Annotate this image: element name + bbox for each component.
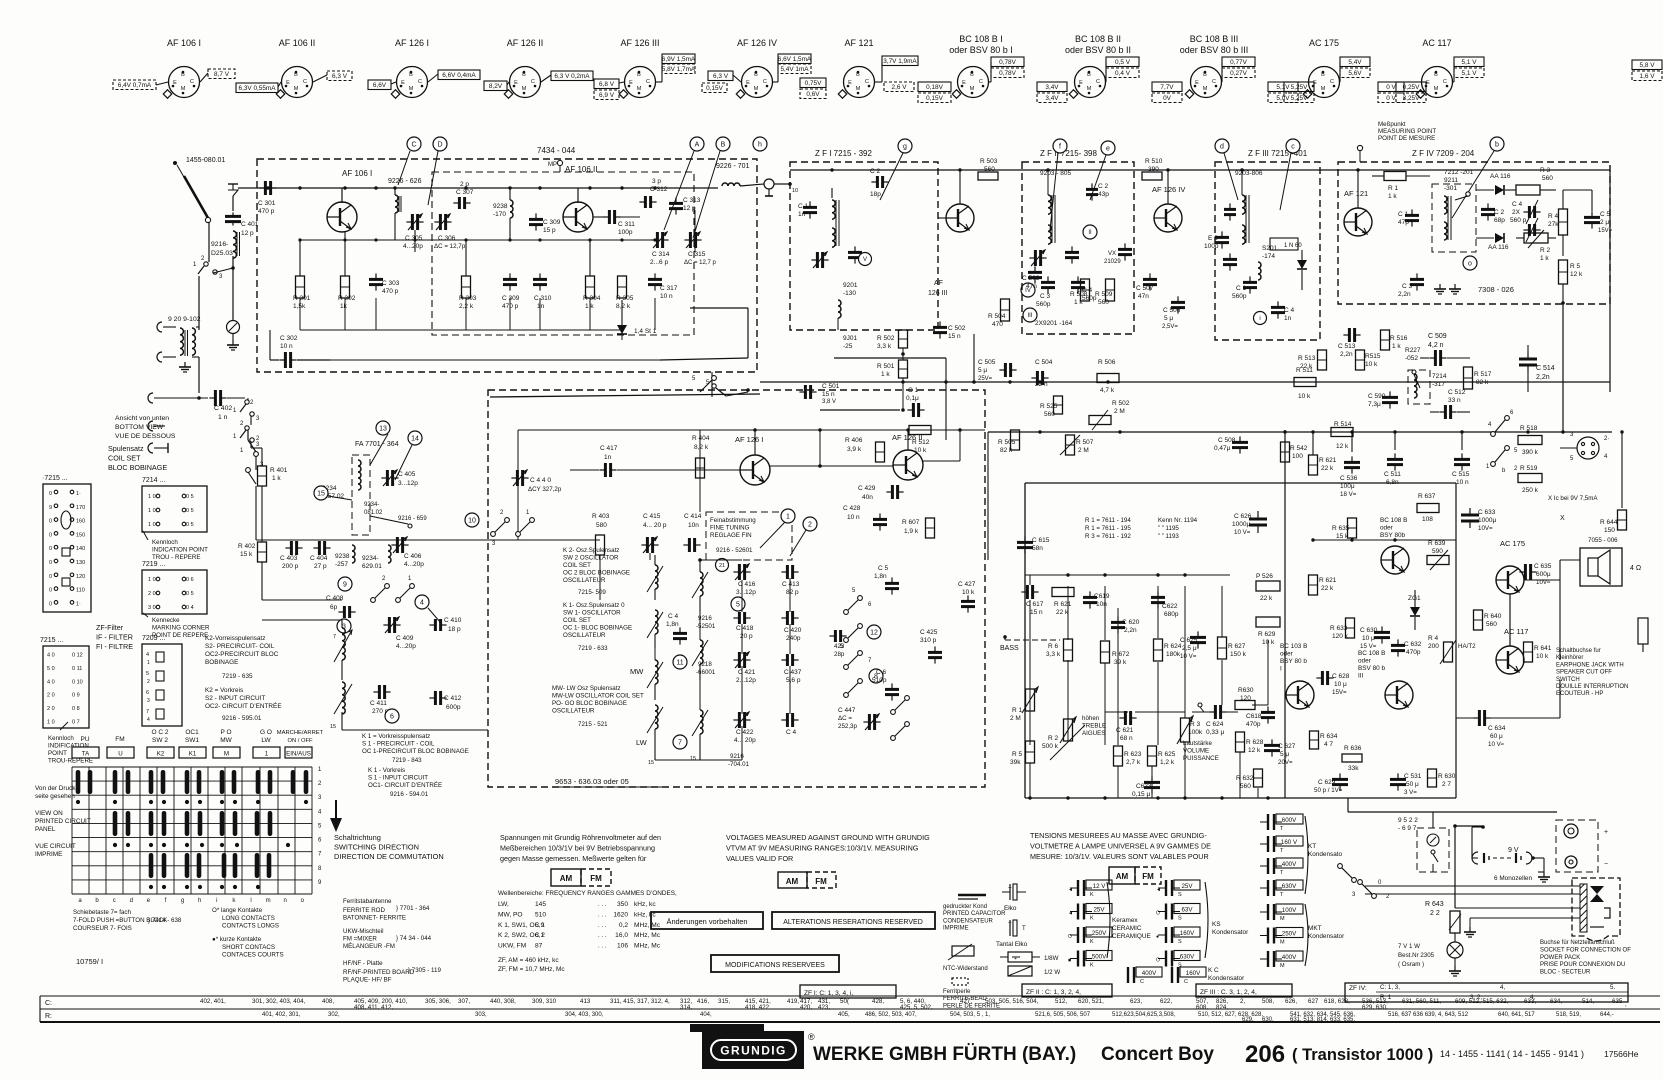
svg-text:d: d: [130, 898, 133, 904]
svg-text:R 504: R 504: [988, 313, 1006, 320]
trimmer C305 4..20p: [403, 214, 424, 252]
svg-text:( 14 - 1455 - 9141 ): ( 14 - 1455 - 9141 ): [1507, 1049, 1584, 1059]
svg-text:AF 126 IV: AF 126 IV: [737, 38, 777, 48]
svg-text:9203-806: 9203-806: [1235, 170, 1263, 177]
svg-text:C 506: C 506: [1163, 307, 1181, 314]
svg-text:C 511: C 511: [1384, 471, 1401, 478]
tape jack circle: [1560, 432, 1609, 462]
transistor case bottom view AF 106 II: [276, 38, 315, 98]
tone control rail: [1025, 574, 1230, 576]
svg-text:15: 15: [648, 760, 654, 766]
svg-text:307,: 307,: [458, 998, 470, 1005]
svg-text:310 p: 310 p: [920, 637, 937, 644]
svg-text:4,: 4,: [1500, 984, 1505, 991]
svg-text:2 2: 2 2: [1430, 910, 1440, 917]
svg-text:PLAQUE- HF/ BF: PLAQUE- HF/ BF: [343, 977, 392, 984]
svg-text:0: 0: [49, 532, 52, 538]
svg-text:R 513: R 513: [1298, 355, 1316, 362]
svg-text:4 0: 4 0: [47, 679, 55, 685]
svg-text:1 k: 1 k: [1074, 299, 1083, 306]
svg-text:C 405: C 405: [398, 471, 416, 478]
svg-text:623,: 623,: [1130, 998, 1142, 1005]
svg-text:250 k: 250 k: [1522, 487, 1539, 494]
capacitor C303 470p: [369, 273, 400, 295]
svg-text:4: 4: [146, 652, 149, 658]
capacitor C1 47p ZF IV: [1398, 209, 1419, 226]
svg-text:AA 116: AA 116: [1490, 173, 1511, 180]
circled 8 marker: [869, 669, 883, 683]
svg-text:R 505: R 505: [998, 439, 1016, 446]
svg-text:100μ: 100μ: [1340, 483, 1355, 490]
svg-text:4...20p: 4...20p: [403, 243, 423, 250]
trimmer C440 327,2p: [511, 470, 561, 493]
svg-text:Spulensatz: Spulensatz: [108, 444, 144, 453]
svg-text:Schaltrichtung: Schaltrichtung: [334, 833, 381, 842]
svg-text:C 416: C 416: [738, 581, 756, 588]
svg-text:1 k: 1 k: [881, 371, 890, 378]
svg-text:M: M: [1203, 86, 1208, 92]
capacitor C513 2,2n: [1338, 328, 1361, 358]
top supply rail FM box: [238, 187, 718, 189]
capacitor C307 2p: [453, 181, 473, 209]
svg-text:8,7 V: 8,7 V: [214, 71, 230, 78]
svg-text:SW 2: SW 2: [152, 737, 168, 744]
svg-text:SW1: SW1: [185, 737, 199, 744]
resistor R621b 22k: [1309, 455, 1337, 475]
resistor R627 150k: [1218, 637, 1247, 659]
svg-text:2 0: 2 0: [47, 706, 55, 712]
svg-text:4 0: 4 0: [47, 653, 55, 659]
output transistor AC175: [1496, 539, 1525, 594]
svg-text:0 5: 0 5: [186, 591, 194, 597]
svg-text:514,: 514,: [1582, 998, 1594, 1005]
svg-text:PU: PU: [80, 736, 89, 743]
svg-text:ON / OFF: ON / OFF: [287, 738, 313, 744]
measuring circle b: [1490, 137, 1504, 151]
svg-text:R 516: R 516: [1390, 335, 1408, 342]
small black marker under index: [690, 1024, 764, 1032]
svg-text:680p: 680p: [1164, 611, 1179, 618]
capacitor C3 2,2n ZF IV: [1398, 273, 1461, 298]
long rail y382: [760, 381, 1610, 383]
svg-text:R630: R630: [1238, 687, 1254, 694]
svg-text:C 1: C 1: [798, 203, 809, 210]
modifications reservees box: [711, 955, 839, 972]
svg-text:C: C: [190, 79, 194, 85]
IF filter table 7215: [40, 637, 89, 728]
svg-text:47n: 47n: [1026, 283, 1037, 290]
transistor AF 126 IV IF amp: [1152, 170, 1185, 232]
svg-text:9J01: 9J01: [843, 335, 857, 342]
svg-text:S 1 - INPUT CIRCUIT: S 1 - INPUT CIRCUIT: [368, 775, 428, 782]
oscillator K2 coil: [647, 555, 663, 600]
svg-text:9203 - 805: 9203 - 805: [1040, 170, 1071, 177]
svg-text:RF/NF-PRINTED BOARD: RF/NF-PRINTED BOARD: [343, 969, 415, 976]
svg-text:Z F I 7215 - 392: Z F I 7215 - 392: [815, 149, 872, 158]
junction wires mixer area: [770, 430, 960, 468]
svg-text:C 630: C 630: [1360, 627, 1378, 634]
svg-text:LW: LW: [261, 737, 271, 744]
svg-text:160V: 160V: [1180, 930, 1195, 937]
svg-text:b: b: [1495, 142, 1499, 149]
svg-text:10: 10: [792, 188, 798, 194]
svg-text:25V=: 25V=: [978, 376, 993, 382]
svg-text:1000μ: 1000μ: [1232, 521, 1250, 528]
svg-text:0: 0: [49, 588, 52, 594]
HF NF board legend: [343, 960, 441, 984]
svg-text:824,: 824,: [1216, 1004, 1228, 1011]
long rail y397 AM top: [490, 394, 760, 397]
svg-text:7219 - 843: 7219 - 843: [392, 757, 422, 764]
svg-text:C: C: [1212, 79, 1216, 85]
svg-text:9238: 9238: [493, 203, 508, 210]
svg-text:2X: 2X: [1512, 209, 1521, 216]
svg-text:5,25V: 5,25V: [1291, 84, 1308, 91]
capacitor C4 1,8n osc: [666, 613, 687, 645]
svg-text:0,2: 0,2: [619, 922, 628, 929]
svg-text:C: C: [303, 79, 307, 85]
switch contact 5 below FM box: [706, 380, 750, 396]
measuring point circles C and D: [398, 137, 447, 205]
svg-text:oder BSV 80 b III: oder BSV 80 b III: [1180, 45, 1249, 55]
capacitor C410 18p: [429, 617, 461, 633]
svg-text:5,25V: 5,25V: [1291, 95, 1308, 102]
svg-text:AM: AM: [1116, 872, 1129, 881]
svg-text:4 7: 4 7: [1324, 741, 1333, 748]
svg-text:18 V=: 18 V=: [1340, 491, 1357, 498]
svg-text:2,2n: 2,2n: [1340, 351, 1353, 358]
svg-text:−: −: [1604, 861, 1608, 868]
svg-text:1: 1: [265, 751, 269, 758]
svg-text:MW, PO: MW, PO: [498, 911, 523, 918]
svg-text:g: g: [903, 144, 907, 151]
svg-text:Feinabstimmung: Feinabstimmung: [710, 517, 756, 524]
svg-text:ΔCΥ 327,2p: ΔCΥ 327,2p: [528, 486, 562, 493]
resistor R506 4,7k: [1097, 359, 1119, 394]
svg-text:5,4V 1mA: 5,4V 1mA: [780, 66, 809, 73]
measuring point circle g: [898, 139, 912, 153]
svg-text:gedruckter Kond: gedruckter Kond: [943, 904, 987, 910]
svg-text:R 633: R 633: [1330, 625, 1348, 632]
svg-text:C618: C618: [1246, 713, 1262, 720]
svg-text:0: 0: [49, 574, 52, 580]
text block K2 oscillator: [563, 547, 630, 596]
capacitor C505 5u 25V: [978, 359, 1017, 382]
svg-text:R 5: R 5: [1012, 751, 1023, 758]
svg-text:K 1 = Vorkreisspulensatz: K 1 = Vorkreisspulensatz: [362, 733, 430, 740]
NTC resistor legend: [943, 944, 988, 972]
svg-text:,: ,: [1625, 1001, 1627, 1008]
svg-text:O* lange Kontakte: O* lange Kontakte: [212, 907, 263, 914]
transistor AF 106 I (FM RF amp): [327, 169, 372, 232]
transistor case bottom view AF 126 II: [504, 38, 543, 98]
capacitor C4 1n ZF III: [1271, 301, 1295, 322]
svg-text:304, 403, 300,: 304, 403, 300,: [565, 1012, 604, 1018]
svg-text:C 427: C 427: [958, 581, 976, 588]
svg-text:V: V: [863, 257, 867, 263]
svg-text:25V: 25V: [1093, 907, 1105, 914]
svg-text:47n: 47n: [1138, 293, 1149, 300]
svg-text:l: l: [250, 898, 251, 904]
svg-text:9216-: 9216-: [211, 241, 228, 248]
capacitor C5 1,8n: [874, 565, 899, 595]
svg-text:145: 145: [535, 901, 546, 908]
svg-text:A: A: [695, 142, 700, 149]
svg-text:MHz, Mc: MHz, Mc: [634, 922, 661, 929]
svg-text:IMPRIME: IMPRIME: [35, 851, 62, 858]
svg-text:2,2n: 2,2n: [1124, 627, 1137, 634]
capacitor C403 200p: [280, 541, 303, 570]
svg-text:C 505: C 505: [978, 359, 996, 366]
svg-text:R 305: R 305: [616, 295, 634, 302]
svg-text:560: 560: [984, 166, 995, 173]
svg-text:Kondensator: Kondensator: [1208, 975, 1245, 982]
svg-text:III: III: [1358, 673, 1364, 680]
capacitor C634 60u: [1473, 710, 1505, 748]
svg-text:400V: 400V: [1282, 954, 1297, 961]
svg-text:7: 7: [678, 740, 682, 747]
svg-text:3 V=: 3 V=: [1404, 789, 1417, 796]
svg-text:C 418: C 418: [736, 625, 754, 632]
svg-text:15 k: 15 k: [240, 551, 253, 558]
svg-text:350: 350: [617, 901, 628, 908]
capacitor C427 10k: [958, 581, 976, 613]
svg-text:418, 422: 418, 422: [745, 1004, 770, 1011]
svg-text:-257: -257: [335, 561, 348, 568]
svg-text:512,623,504,625,3,508,: 512,623,504,625,3,508,: [1112, 1012, 1176, 1018]
svg-text:VX: VX: [1108, 251, 1116, 257]
svg-text:K2-Vorreisspulensatz: K2-Vorreisspulensatz: [205, 635, 265, 642]
resistor R525 560: [1040, 396, 1063, 418]
connector table 7215: [42, 475, 91, 612]
svg-text:C 3: C 3: [1402, 283, 1413, 290]
switch contact S512: [692, 376, 716, 392]
capacitor C627 5u: [1264, 739, 1296, 766]
svg-text:20V=: 20V=: [1278, 759, 1293, 766]
resistor R505 82k: [998, 430, 1020, 454]
svg-text:10: 10: [468, 518, 476, 525]
svg-text:50 μ: 50 μ: [1406, 781, 1419, 788]
svg-text:22 k: 22 k: [1260, 595, 1273, 602]
FM box mid rail: [298, 238, 660, 241]
svg-text:FM: FM: [1142, 872, 1154, 881]
svg-text:2,: 2,: [1240, 998, 1245, 1005]
svg-text:7,7V: 7,7V: [1160, 84, 1174, 91]
svg-text:III: III: [1027, 313, 1032, 319]
svg-text:4... 20 p: 4... 20 p: [643, 522, 667, 529]
svg-text:309, 310: 309, 310: [532, 998, 557, 1005]
svg-text:SOCKET FOR CONNECTION OF: SOCKET FOR CONNECTION OF: [1540, 947, 1631, 953]
svg-text:82 k: 82 k: [1000, 447, 1013, 454]
indication point label 7214: [143, 531, 208, 561]
svg-text:S: S: [1178, 916, 1182, 922]
svg-text:AF 126 IV: AF 126 IV: [1152, 185, 1185, 194]
svg-text:150: 150: [1604, 527, 1615, 534]
svg-text:Z F II 7215- 398: Z F II 7215- 398: [1040, 149, 1097, 158]
resistor R3 560: [1516, 167, 1556, 195]
svg-text:BLOC BOBINAGE: BLOC BOBINAGE: [108, 463, 167, 472]
svg-text:Lautstärke: Lautstärke: [1183, 740, 1212, 747]
svg-text:AC 117: AC 117: [1422, 38, 1451, 48]
capacitor C630 10u: [1360, 626, 1390, 650]
capacitor E3 100p: [1204, 231, 1229, 250]
circled 5 marker: [731, 597, 745, 611]
svg-text:” ” 1195: ” ” 1195: [1158, 525, 1179, 532]
svg-text:KS: KS: [1212, 921, 1221, 928]
capacitor C619 10n: [1083, 591, 1110, 608]
svg-text:REGLAGE FIN: REGLAGE FIN: [710, 532, 752, 539]
svg-text:Keramex: Keramex: [1112, 917, 1138, 924]
svg-text:0 6: 0 6: [186, 577, 194, 583]
capacitor C402 1n: [148, 390, 245, 421]
resistor R4 27k: [1548, 190, 1568, 256]
circled 1 2 markers: [760, 509, 817, 556]
svg-text:” ” 1193: ” ” 1193: [1158, 533, 1179, 540]
svg-text:5,8 V: 5,8 V: [1640, 62, 1656, 69]
svg-text:C: 1, 3,: C: 1, 3,: [1380, 984, 1400, 991]
resistor R5 39k: [1010, 741, 1035, 766]
svg-text:2,5V=: 2,5V=: [1162, 324, 1178, 330]
svg-text:315,: 315,: [718, 998, 730, 1005]
coil 9216-704.01: [673, 710, 750, 768]
svg-text:C 425: C 425: [920, 629, 938, 636]
ZF I enclosure 7215-392: [790, 149, 938, 330]
svg-text:63V: 63V: [1181, 907, 1193, 914]
antenna coil 9216-D25.03: [211, 231, 240, 270]
svg-text:INDIFICATION: INDIFICATION: [48, 743, 89, 750]
capacitor C313 12p: [669, 197, 701, 215]
ZF II component note box: [1022, 984, 1112, 997]
wire main left vertical: [198, 357, 200, 393]
svg-text:} 7414 - 638: } 7414 - 638: [148, 917, 182, 924]
svg-text:15 n: 15 n: [948, 333, 961, 340]
treble pot R2 500k: [1042, 715, 1106, 760]
svg-text:8,2 k: 8,2 k: [616, 303, 631, 310]
svg-text:c: c: [113, 898, 116, 904]
svg-text:560: 560: [1044, 411, 1055, 418]
svg-text:R 4: R 4: [1428, 635, 1439, 642]
svg-text:BC 108 B: BC 108 B: [1358, 650, 1385, 657]
svg-text:7219 - 633: 7219 - 633: [578, 645, 608, 652]
resistor R301 1,5k: [293, 240, 311, 310]
svg-text:MESURE: 10/3/1V. VALEURS SON: MESURE: 10/3/1V. VALEURS SONT VALABLES P…: [1030, 852, 1209, 861]
volume pot R3 100k: [1177, 716, 1219, 762]
KS capacitor legend column S: [1156, 880, 1249, 969]
svg-text:0 5: 0 5: [186, 508, 194, 514]
svg-text:27 p: 27 p: [314, 563, 327, 570]
svg-text:C: C: [1140, 979, 1144, 985]
svg-text:9 V: 9 V: [1508, 847, 1519, 854]
svg-text:0V: 0V: [1163, 95, 1172, 102]
svg-text:C 414: C 414: [684, 513, 702, 520]
transistor AF 121 IF output: [1344, 170, 1372, 236]
svg-text:R 636: R 636: [1344, 745, 1362, 752]
svg-text:C 4: C 4: [1284, 307, 1295, 314]
svg-text:K1: K1: [189, 751, 197, 758]
svg-text:TROU - REPERE: TROU - REPERE: [152, 554, 200, 561]
capacitor C624 0,33u: [1198, 703, 1227, 736]
coil 9234-629.01: [362, 545, 391, 570]
svg-text:560: 560: [1542, 175, 1553, 182]
second driver BC108B III: [1358, 650, 1413, 709]
svg-text:419,: 419,: [787, 998, 799, 1005]
svg-text:1,8n: 1,8n: [666, 621, 679, 628]
diode 1N60: [1270, 238, 1307, 290]
svg-text:3: 3: [147, 698, 150, 704]
svg-text:AF 126 I: AF 126 I: [735, 435, 763, 444]
svg-text:Kenn Nr. 1194: Kenn Nr. 1194: [1158, 517, 1198, 524]
svg-text:28p: 28p: [834, 651, 845, 658]
svg-text:1,4 St 1: 1,4 St 1: [634, 328, 657, 335]
svg-text:SHORT CONTACS: SHORT CONTACS: [222, 944, 275, 951]
label R227-052 pot: [1405, 347, 1421, 388]
short contacts label: [212, 936, 284, 959]
output transistor AC117: [1496, 627, 1528, 674]
svg-text:PRISE POUR CONNEXION DU: PRISE POUR CONNEXION DU: [1540, 962, 1625, 968]
svg-text:R 621: R 621: [1319, 457, 1337, 464]
audio internal verticals: [1030, 575, 1268, 798]
measuring circle i: [1254, 312, 1267, 325]
svg-text:C 6: C 6: [876, 669, 887, 676]
svg-text:R 632: R 632: [1236, 775, 1254, 782]
svg-text:0,5 V: 0,5 V: [1115, 59, 1131, 66]
svg-text:MEASURING POINT: MEASURING POINT: [1378, 128, 1436, 135]
svg-text:MW-LW OSCILLATOR COIL SET: MW-LW OSCILLATOR COIL SET: [552, 693, 644, 700]
svg-text:Schaltbuchse fur: Schaltbuchse fur: [1556, 648, 1601, 654]
svg-text:420,: 420,: [800, 1004, 812, 1011]
svg-text:6,8 V: 6,8 V: [599, 81, 615, 88]
svg-text:43p: 43p: [1098, 191, 1109, 198]
svg-text:h: h: [198, 898, 201, 904]
svg-text:0: 0: [49, 491, 52, 497]
svg-text:R515: R515: [1365, 353, 1381, 360]
svg-text:1: 1: [147, 660, 150, 666]
resistor R406 3,9k: [845, 437, 885, 462]
svg-text:0 10: 0 10: [72, 679, 83, 685]
svg-text:AIGUES: AIGUES: [1082, 730, 1105, 737]
svg-text:634,: 634,: [1550, 998, 1562, 1005]
switching direction arrow: [330, 800, 342, 832]
capacitor C309 15p: [529, 213, 561, 234]
svg-text:oder: oder: [1358, 658, 1372, 665]
svg-text:0 V: 0 V: [1386, 84, 1396, 91]
svg-text:M: M: [1280, 940, 1285, 946]
capacitor C2 18p ZF I: [870, 168, 889, 198]
svg-text:ZF IV:: ZF IV:: [1349, 985, 1367, 992]
svg-text:180k: 180k: [1166, 651, 1181, 658]
svg-text:390: 390: [1148, 166, 1159, 173]
svg-text:82 p: 82 p: [786, 589, 799, 596]
svg-text:G O: G O: [260, 729, 272, 736]
svg-text:3,7V 1,9mA: 3,7V 1,9mA: [883, 58, 917, 65]
marking corner label: [143, 613, 210, 639]
svg-text:P 526: P 526: [1256, 573, 1273, 580]
capacitor C308 2,2k R303: [459, 240, 477, 310]
capacitor C411 270p: [370, 685, 391, 715]
svg-text:UKW-Mischteil: UKW-Mischteil: [343, 928, 383, 935]
svg-text:3 p: 3 p: [652, 178, 661, 185]
svg-text:AA 116: AA 116: [1488, 244, 1509, 251]
resistor R621 22k tone: [1052, 588, 1074, 617]
svg-text:2: 2: [808, 522, 812, 529]
svg-text:7219 - 635: 7219 - 635: [222, 673, 253, 680]
svg-text:OC1- CIRCUIT D’ENTRÉE: OC1- CIRCUIT D’ENTRÉE: [368, 782, 442, 789]
svg-text:1 n: 1 n: [218, 414, 228, 421]
input coil 9216-525.01: [692, 559, 729, 631]
svg-text:408,: 408,: [322, 998, 334, 1005]
svg-text:10 k: 10 k: [1536, 653, 1549, 660]
svg-text:Meßbereichen 10/3/1V bei 9V: Meßbereichen 10/3/1V bei 9V Betriebsspan…: [500, 844, 655, 853]
